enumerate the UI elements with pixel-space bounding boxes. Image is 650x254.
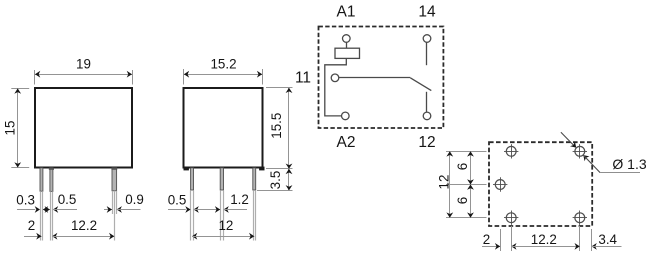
dimension 1.2 (middle pin width) [215, 206, 220, 213]
svg-text:3.4: 3.4 [598, 232, 617, 247]
wire 11 to contact [339, 77, 411, 79]
svg-text:15.5: 15.5 [269, 113, 284, 139]
wire 12 stub [426, 92, 428, 113]
dimension 2 (pin1-pin2 pitch) [24, 236, 42, 238]
svg-text:3.5: 3.5 [268, 171, 283, 190]
terminal A1 [343, 35, 351, 43]
pcb layout dashed outline [489, 142, 592, 226]
dimension 19 (width) [34, 70, 36, 85]
contact blade [410, 78, 431, 91]
dimension 0.3 (pin1 width) [17, 209, 35, 211]
hole pin 14 (top right) [573, 144, 587, 158]
pin 2 (0.5 mm) [50, 168, 53, 192]
svg-text:1.2: 1.2 [230, 192, 249, 207]
dimension 12.2 (bottom) [511, 243, 516, 250]
schematic dashed border [319, 27, 444, 129]
leader tail [583, 155, 600, 172]
svg-text:0.5: 0.5 [168, 192, 187, 207]
hole pin 12 (bottom right) [573, 211, 587, 225]
svg-text:A2: A2 [337, 134, 356, 151]
dimension 15 (height) [11, 88, 29, 90]
dimension 15.5 (body height) [266, 87, 293, 89]
svg-text:12.2: 12.2 [531, 232, 557, 247]
wire 14 stub [426, 42, 428, 65]
body foot left [184, 167, 189, 171]
dimension 2 (bottom) [482, 246, 500, 248]
dimension 0.5 (pin2 width) [45, 206, 50, 213]
dimension 12 (outer pin pitch) [192, 233, 197, 240]
svg-text:19: 19 [76, 56, 91, 71]
pin 3 (0.9 mm) [112, 168, 117, 191]
svg-text:A1: A1 [337, 3, 356, 20]
side pin middle [220, 168, 223, 190]
relay side view body [184, 88, 263, 168]
svg-text:15: 15 [2, 121, 17, 136]
pin 1 (0.3 mm) [40, 168, 43, 191]
svg-text:11: 11 [295, 70, 311, 87]
side pin right [253, 168, 256, 190]
terminal A2 [342, 112, 350, 120]
dimension 6 (top row spacing) [470, 151, 472, 184]
wire A1 to coil [346, 42, 348, 48]
terminal 11 (common) [331, 74, 339, 82]
svg-text:2: 2 [28, 218, 35, 233]
svg-text:0.9: 0.9 [125, 192, 144, 207]
svg-text:12: 12 [436, 175, 451, 190]
svg-text:12: 12 [418, 134, 435, 151]
hole pin A1 (top left) [504, 144, 518, 158]
hole diameter leader [561, 132, 575, 146]
dimension 0.9 (pin3 width) [104, 209, 112, 211]
svg-text:6: 6 [455, 163, 470, 170]
dimension 0.5 (left pin width) [168, 209, 186, 211]
wire coil to A2 [325, 58, 347, 116]
coil K1 [335, 48, 360, 58]
hole pin A2 (bottom left) [504, 211, 518, 225]
dimension 3.5 (pin length) [257, 190, 293, 192]
pin extension lines fig1 [40, 191, 42, 240]
svg-text:2: 2 [483, 232, 490, 247]
pin extension lines fig2 [190, 190, 192, 240]
svg-text:0.5: 0.5 [58, 192, 77, 207]
svg-text:6: 6 [455, 197, 470, 204]
svg-text:12.2: 12.2 [71, 218, 97, 233]
svg-text:15.2: 15.2 [210, 56, 236, 71]
terminal 14 [423, 35, 431, 43]
dimension 3.4 (bottom) [592, 243, 597, 250]
side pin left [191, 168, 194, 190]
body foot right [259, 167, 264, 171]
hole pin 11 (middle left) [493, 177, 507, 191]
svg-text:12: 12 [218, 218, 233, 233]
terminal 12 [423, 112, 431, 120]
dimension 6 (bottom row spacing) [470, 185, 472, 218]
pcb bottom extension lines [500, 229, 502, 251]
svg-text:14: 14 [418, 3, 436, 20]
relay front view body [35, 88, 132, 168]
dimension 12 (hole rows total) [446, 151, 487, 153]
svg-text:0.3: 0.3 [16, 193, 35, 208]
dimension 15.2 (depth) [183, 69, 185, 85]
svg-text:Ø 1.3: Ø 1.3 [612, 156, 646, 172]
dimension 12.2 (pin2-pin3 pitch) [52, 233, 57, 240]
